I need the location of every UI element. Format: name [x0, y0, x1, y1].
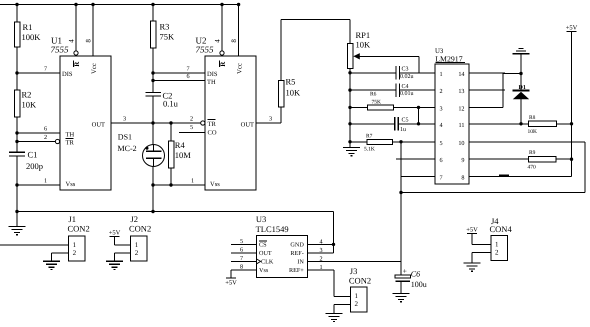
svg-text:C6: C6	[411, 269, 420, 278]
svg-text:J1: J1	[69, 214, 77, 224]
svg-text:8: 8	[85, 39, 93, 43]
svg-text:7555: 7555	[196, 45, 215, 55]
svg-text:8: 8	[230, 39, 238, 43]
svg-text:10K: 10K	[528, 129, 538, 135]
svg-text:+5V: +5V	[109, 230, 121, 237]
svg-text:CLK: CLK	[261, 259, 274, 266]
svg-text:R8: R8	[529, 115, 536, 121]
svg-text:R7: R7	[366, 133, 373, 139]
svg-text:4: 4	[68, 39, 76, 43]
svg-text:Vss: Vss	[259, 267, 269, 274]
svg-text:C5: C5	[402, 118, 409, 124]
svg-text:OUT: OUT	[241, 121, 254, 128]
svg-text:R3: R3	[160, 22, 170, 32]
svg-text:CS: CS	[259, 242, 267, 249]
svg-text:J2: J2	[131, 214, 139, 224]
svg-text:12: 12	[458, 105, 464, 112]
svg-text:OUT: OUT	[259, 250, 272, 257]
svg-text:+5V: +5V	[225, 279, 237, 286]
svg-text:CON2: CON2	[349, 275, 371, 285]
svg-text:TR: TR	[66, 140, 75, 147]
svg-text:OUT: OUT	[92, 121, 105, 128]
svg-text:6: 6	[240, 246, 243, 253]
svg-text:Vcc: Vcc	[91, 63, 98, 74]
svg-text:TH: TH	[207, 79, 216, 86]
svg-text:1: 1	[44, 178, 47, 185]
svg-text:1: 1	[355, 292, 359, 300]
svg-text:C1: C1	[28, 150, 38, 160]
svg-text:CON2: CON2	[129, 224, 151, 234]
svg-text:2: 2	[73, 249, 77, 257]
svg-text:7: 7	[240, 255, 243, 262]
svg-text:1: 1	[495, 240, 499, 248]
svg-text:0.1u: 0.1u	[163, 99, 179, 109]
svg-text:D1: D1	[519, 85, 526, 91]
svg-text:0.02u: 0.02u	[400, 74, 414, 80]
svg-text:5: 5	[440, 140, 443, 147]
svg-text:R2: R2	[22, 90, 32, 100]
svg-text:13: 13	[458, 88, 464, 95]
svg-text:TLC1549: TLC1549	[256, 224, 289, 234]
svg-text:10K: 10K	[22, 100, 38, 110]
svg-text:5: 5	[190, 124, 193, 131]
svg-text:CON2: CON2	[68, 224, 90, 234]
svg-text:+: +	[403, 267, 407, 276]
svg-text:C4: C4	[402, 84, 409, 90]
svg-text:C3: C3	[402, 67, 409, 73]
svg-text:1u: 1u	[400, 127, 406, 133]
svg-text:75K: 75K	[160, 32, 176, 42]
svg-text:75K: 75K	[372, 99, 382, 105]
svg-text:200p: 200p	[26, 161, 43, 171]
svg-text:7: 7	[440, 175, 443, 182]
svg-text:Vss: Vss	[210, 181, 220, 188]
svg-text:6: 6	[440, 157, 443, 164]
svg-text:7: 7	[187, 65, 190, 72]
svg-text:IN: IN	[297, 259, 304, 266]
svg-text:2: 2	[355, 300, 359, 308]
svg-text:10K: 10K	[286, 88, 302, 98]
svg-text:R4: R4	[175, 140, 186, 150]
svg-text:7555: 7555	[51, 45, 70, 55]
svg-text:U3: U3	[256, 214, 266, 224]
svg-text:LM2917: LM2917	[435, 54, 462, 63]
svg-text:100K: 100K	[22, 32, 42, 42]
svg-text:+5V: +5V	[566, 25, 578, 32]
svg-text:1: 1	[191, 178, 194, 185]
svg-text:10K: 10K	[356, 40, 372, 50]
svg-text:2: 2	[190, 115, 193, 122]
svg-text:100u: 100u	[411, 280, 427, 289]
svg-text:10M: 10M	[175, 150, 192, 160]
svg-text:7: 7	[44, 65, 47, 72]
svg-text:RP1: RP1	[356, 30, 371, 40]
svg-text:R1: R1	[23, 22, 33, 32]
svg-text:1: 1	[135, 241, 139, 249]
svg-text:8: 8	[240, 263, 243, 270]
svg-text:3: 3	[123, 115, 126, 122]
svg-text:0.01u: 0.01u	[400, 91, 414, 97]
svg-text:2: 2	[135, 249, 139, 257]
svg-text:4: 4	[320, 238, 323, 245]
svg-text:MC-2: MC-2	[118, 144, 137, 153]
svg-text:R9: R9	[529, 150, 536, 156]
svg-text:REF+: REF+	[289, 267, 304, 274]
svg-text:3: 3	[440, 105, 443, 112]
svg-text:GND: GND	[290, 242, 304, 249]
svg-text:4: 4	[440, 122, 443, 129]
svg-text:1: 1	[73, 241, 77, 249]
svg-text:DS1: DS1	[118, 133, 132, 142]
svg-text:9: 9	[461, 157, 464, 164]
svg-text:DIS: DIS	[62, 71, 73, 78]
svg-text:470: 470	[528, 165, 537, 171]
svg-text:4: 4	[213, 39, 221, 43]
svg-text:6: 6	[187, 73, 190, 80]
svg-text:R6: R6	[370, 92, 377, 98]
svg-text:TR: TR	[208, 121, 217, 128]
svg-text:Vss: Vss	[66, 181, 76, 188]
svg-text:CON4: CON4	[490, 224, 513, 234]
svg-text:3: 3	[320, 247, 323, 254]
svg-text:8: 8	[461, 175, 464, 182]
svg-text:2: 2	[44, 134, 47, 141]
svg-text:11: 11	[459, 122, 465, 129]
svg-text:3: 3	[269, 115, 272, 122]
svg-text:CO: CO	[208, 129, 217, 136]
svg-text:1: 1	[440, 71, 443, 78]
svg-text:TH: TH	[66, 132, 75, 139]
svg-text:14: 14	[458, 71, 464, 78]
svg-text:5.1K: 5.1K	[364, 146, 375, 152]
svg-text:DIS: DIS	[207, 71, 218, 78]
svg-text:R5: R5	[286, 77, 296, 87]
svg-text:5: 5	[240, 238, 243, 245]
svg-text:+5V: +5V	[466, 227, 478, 234]
svg-text:Vcc: Vcc	[237, 63, 244, 74]
svg-text:10: 10	[458, 140, 464, 147]
svg-text:REF-: REF-	[290, 250, 303, 257]
svg-text:2: 2	[440, 88, 443, 95]
svg-text:2: 2	[495, 249, 499, 257]
svg-text:6: 6	[44, 125, 47, 132]
